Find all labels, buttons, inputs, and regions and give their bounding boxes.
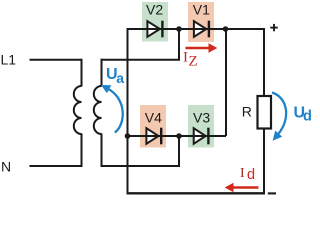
svg-text:a: a [116, 70, 124, 86]
svg-text:Z: Z [189, 54, 198, 70]
current arrow Id (red) [225, 183, 259, 193]
wire N terminal lead [30, 165, 83, 167]
transformer primary winding [74, 86, 82, 134]
svg-text:N: N [1, 158, 11, 174]
highlight box V4 (salmon) [140, 105, 166, 148]
current arrow Iz (red) [186, 43, 218, 53]
svg-text:d: d [247, 167, 255, 183]
wire node a: secondary top to V2-V1 junction [101, 29, 180, 60]
wire bottom diode row [128, 135, 227, 137]
junction node plus (after V1) [223, 26, 229, 32]
svg-text:I: I [240, 166, 245, 181]
svg-text:V1: V1 [193, 2, 210, 18]
wire secondary top vertical [101, 59, 103, 87]
svg-text:V3: V3 [193, 109, 210, 125]
junction node minus (V4 anode) [125, 133, 131, 139]
wire top rail (minus node to V2, V2 to V1, V1 to plus corner) [128, 28, 265, 30]
minus terminal mark [268, 192, 276, 194]
svg-text:d: d [303, 108, 311, 124]
diode V4 [146, 128, 161, 145]
wire plus node stub from V3 up to top rail [225, 29, 227, 136]
wire secondary bottom vertical [101, 134, 103, 168]
junction node b (V4-V3) [176, 133, 182, 139]
wire right vertical plus node above R [263, 28, 265, 96]
diode V2 [147, 21, 162, 38]
svg-text:V2: V2 [146, 2, 163, 18]
plus terminal mark [270, 24, 277, 31]
diode V3 [194, 128, 209, 145]
junction node a (V2-V1) [176, 26, 182, 32]
highlight box V1 (salmon) [188, 2, 214, 42]
wire L1 terminal lead [30, 59, 82, 61]
diode V1 [194, 21, 209, 38]
svg-text:V4: V4 [145, 109, 162, 125]
resistor R [258, 96, 272, 129]
wire left vertical minus node [127, 28, 129, 193]
wire right vertical below R [263, 128, 265, 194]
svg-text:R: R [242, 103, 252, 119]
voltage arrow Ud (blue arc) [272, 93, 286, 136]
svg-text:I: I [183, 49, 188, 65]
wire primary bottom vertical [81, 134, 83, 167]
wire primary top vertical [81, 59, 83, 87]
voltage arrow Ua (blue arc) [108, 89, 123, 133]
highlight box V3 (green) [188, 105, 214, 148]
svg-text:L1: L1 [1, 51, 17, 67]
transformer secondary winding [94, 86, 102, 134]
highlight box V2 (green) [142, 2, 168, 42]
wire node b: secondary bottom to V4-V3 junction [101, 135, 180, 166]
wire bottom rail minus node [127, 192, 266, 194]
